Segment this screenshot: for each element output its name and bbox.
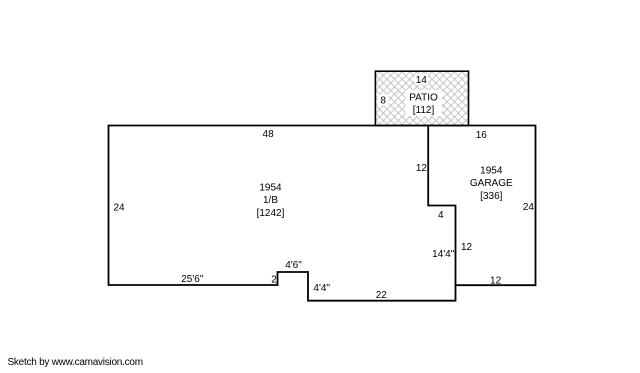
svg-text:[1242]: [1242]	[257, 208, 285, 219]
patio P1 hatched area	[375, 71, 468, 125]
svg-text:1954: 1954	[480, 165, 503, 176]
svg-text:8: 8	[380, 96, 386, 107]
svg-text:1/B: 1/B	[263, 195, 278, 206]
node patio width label 14	[415, 74, 429, 85]
svg-text:14'4": 14'4"	[432, 249, 455, 260]
svg-text:12: 12	[416, 163, 428, 174]
svg-text:4: 4	[438, 210, 444, 221]
wire main building perimeter	[109, 126, 536, 301]
node patio height label 8	[378, 95, 389, 106]
svg-text:[112]: [112]	[413, 105, 435, 116]
svg-text:24: 24	[114, 202, 126, 213]
svg-text:22: 22	[376, 290, 388, 301]
node PATIO name	[406, 90, 443, 116]
svg-text:12: 12	[490, 276, 502, 287]
svg-text:4'6": 4'6"	[285, 260, 302, 271]
svg-text:GARAGE: GARAGE	[470, 178, 513, 189]
svg-text:[336]: [336]	[480, 191, 502, 202]
svg-text:12: 12	[461, 242, 473, 253]
svg-text:PATIO: PATIO	[409, 93, 438, 104]
svg-text:1954: 1954	[259, 183, 282, 194]
svg-text:Sketch by www.camavision.com: Sketch by www.camavision.com	[8, 357, 143, 368]
svg-text:48: 48	[263, 129, 275, 140]
svg-text:16: 16	[476, 130, 488, 141]
svg-text:2: 2	[271, 275, 277, 286]
svg-text:25'6": 25'6"	[181, 274, 204, 285]
wire garage/main divider wall	[428, 126, 455, 286]
svg-text:14: 14	[416, 75, 428, 86]
svg-text:24: 24	[523, 202, 535, 213]
svg-text:4'4": 4'4"	[313, 283, 330, 294]
